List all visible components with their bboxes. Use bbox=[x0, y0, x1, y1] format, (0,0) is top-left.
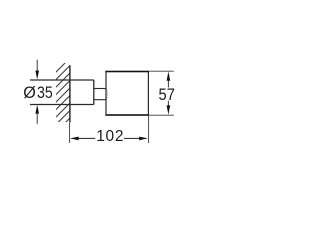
svg-text:102: 102 bbox=[96, 128, 124, 145]
svg-text:35: 35 bbox=[37, 84, 53, 102]
svg-text:57: 57 bbox=[159, 86, 175, 104]
svg-text:Ø: Ø bbox=[23, 84, 36, 102]
